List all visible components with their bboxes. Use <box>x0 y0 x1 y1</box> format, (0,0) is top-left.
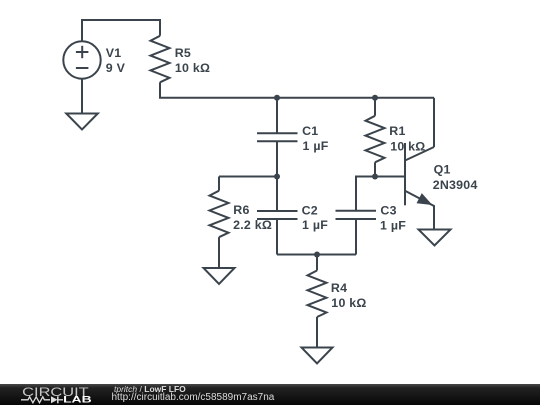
wire C1 top <box>276 98 278 134</box>
capacitor C2 <box>257 211 298 219</box>
voltage source V1 <box>63 41 100 78</box>
wire net A horizontal <box>219 176 277 178</box>
svg-text:9 V: 9 V <box>106 61 126 75</box>
node dot rail/C1 <box>274 95 280 101</box>
transistor Q1 <box>405 143 434 230</box>
svg-text:1 µF: 1 µF <box>302 218 328 232</box>
V1 label <box>106 46 126 75</box>
ground under Q1 emitter <box>419 230 451 246</box>
svg-text:R4: R4 <box>331 281 347 295</box>
resistor R5 <box>151 36 170 83</box>
C2 label <box>302 203 329 232</box>
logo diode <box>51 396 58 403</box>
wire V1 top to R5 top <box>82 20 160 41</box>
svg-text:2.2 kΩ: 2.2 kΩ <box>233 218 272 232</box>
Q1 label <box>433 163 478 192</box>
resistor R1 <box>366 98 385 177</box>
svg-text:R1: R1 <box>389 124 405 138</box>
svg-text:C2: C2 <box>302 203 318 217</box>
svg-text:1 µF: 1 µF <box>380 218 406 232</box>
resistor R4 <box>308 255 327 348</box>
footer bar <box>0 384 540 405</box>
wire C2 bottom <box>276 219 278 255</box>
svg-text:C1: C1 <box>302 124 318 138</box>
wire V1 bottom lead <box>81 79 83 114</box>
node dot R4 <box>314 252 320 258</box>
resistor R6 <box>210 191 229 238</box>
ground under R6 <box>204 268 235 284</box>
svg-text:10 kΩ: 10 kΩ <box>390 139 425 153</box>
svg-text:10 kΩ: 10 kΩ <box>175 61 210 75</box>
logo resistor squiggle <box>21 397 50 403</box>
node dot R1/base <box>372 174 378 180</box>
node dot C1/C2/R6 <box>274 174 280 180</box>
node dot rail/R1 <box>372 95 378 101</box>
wire C3 bottom <box>355 219 357 255</box>
svg-text:10 kΩ: 10 kΩ <box>331 296 366 310</box>
svg-text:LAB: LAB <box>63 394 92 404</box>
wire C1 bottom <box>276 141 278 176</box>
svg-text:R6: R6 <box>233 203 249 217</box>
wire collector drop <box>433 98 435 147</box>
R6 label <box>233 203 272 232</box>
C3 label <box>380 204 406 233</box>
wire R5 bottom + main rail <box>160 82 434 98</box>
C1 label <box>302 124 329 153</box>
bottom wire C2 to C3 <box>277 254 356 256</box>
capacitor C1 <box>257 133 298 141</box>
svg-text:1 µF: 1 µF <box>303 139 329 153</box>
svg-text:Q1: Q1 <box>434 163 451 177</box>
wire C3 top to base <box>356 177 405 211</box>
wire C2 top <box>276 177 278 212</box>
svg-text:V1: V1 <box>106 46 122 60</box>
R4 label <box>331 281 367 310</box>
ground under R4 <box>302 348 333 364</box>
CircuitLab logo <box>0 384 110 405</box>
wire R6 bottom lead <box>218 237 220 268</box>
wire R6 top lead <box>218 177 220 191</box>
R5 label <box>175 46 211 75</box>
svg-text:2N3904: 2N3904 <box>433 178 478 192</box>
footer title <box>114 384 186 394</box>
capacitor C3 <box>336 211 377 219</box>
R1 label <box>389 124 425 153</box>
svg-text:R5: R5 <box>175 46 191 60</box>
svg-text:C3: C3 <box>380 204 396 218</box>
ground under V1 <box>66 114 98 130</box>
footer url <box>112 392 275 403</box>
